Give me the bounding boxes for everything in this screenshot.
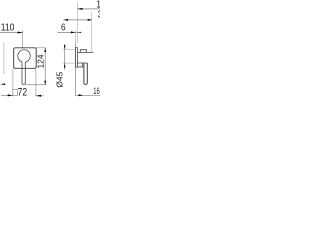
sq72 right extension line <box>35 69 37 97</box>
handle base bottom line <box>77 62 87 64</box>
svg-text:16: 16 <box>93 86 99 97</box>
124 dimension line <box>44 48 46 85</box>
arrow dim2 left <box>63 19 68 21</box>
svg-text:35: 35 <box>98 9 100 20</box>
sq72 dim line left tail <box>1 94 13 96</box>
left lever-tip dimension arrow (cropped) <box>1 83 7 85</box>
plate cross-section side view <box>76 48 78 68</box>
dia45 arrow down <box>64 45 66 49</box>
ext line dim2 right <box>91 12 93 52</box>
handle circle + lever front view <box>18 50 30 85</box>
left vertical dimension line (cropped) <box>3 43 5 75</box>
label dim2 (cut) <box>98 9 107 20</box>
svg-text:6: 6 <box>61 22 66 33</box>
square-72 dimension label <box>13 86 28 98</box>
dia45 label (rotated) <box>54 71 64 87</box>
124 arrow up <box>44 48 46 52</box>
handle body top line <box>77 52 93 54</box>
dia45 top tick <box>63 49 76 51</box>
dia45 arrow up <box>64 63 66 67</box>
cartridge bump <box>80 50 86 53</box>
top dimension 1 (cut at right) <box>77 8 100 10</box>
dim line 6 <box>58 31 82 33</box>
svg-text:110: 110 <box>1 22 15 34</box>
background <box>0 0 100 100</box>
bottom right dimension (cut) <box>76 94 100 96</box>
dim label 6 <box>61 22 66 33</box>
sq72 left extension line <box>12 69 14 97</box>
top dimension 2 (cut at right) <box>63 19 92 21</box>
wall line <box>75 43 77 97</box>
sq72 right arrow <box>36 95 41 97</box>
sq72 left arrow <box>8 94 13 96</box>
step lower line <box>77 66 84 68</box>
dia45 bottom tick <box>63 62 78 64</box>
124 dimension label (rotated) <box>36 54 46 68</box>
svg-text:□72: □72 <box>13 86 28 98</box>
bottom right label 16 <box>93 86 99 97</box>
arrow dim2 right <box>88 19 93 21</box>
step under handle base <box>77 63 82 67</box>
arrow 6 right <box>71 31 76 33</box>
svg-text:Ø45: Ø45 <box>54 71 64 87</box>
escutcheon plate front view <box>14 48 37 69</box>
ext line wall for 6 <box>75 30 77 43</box>
lever blade side view <box>84 63 87 84</box>
arrow 6 left <box>78 32 81 33</box>
bottom right arrow <box>79 94 84 96</box>
dimension label 110 <box>1 22 15 34</box>
svg-text:124: 124 <box>36 54 46 68</box>
dia45 dim line <box>64 44 66 70</box>
label top dim 1 (cut) <box>96 0 105 10</box>
124 arrow down <box>44 81 46 85</box>
124 top extension line <box>36 47 46 49</box>
124 bottom extension line <box>26 84 47 86</box>
dimension line 110 <box>0 32 23 34</box>
sq72 dim line right tail <box>36 95 44 97</box>
extension line from 110 to plate <box>22 30 24 47</box>
ext line plate front (full, serves top dims) <box>76 3 78 44</box>
arrowhead 110 <box>18 32 23 34</box>
arrow top dim 1 <box>78 8 83 10</box>
